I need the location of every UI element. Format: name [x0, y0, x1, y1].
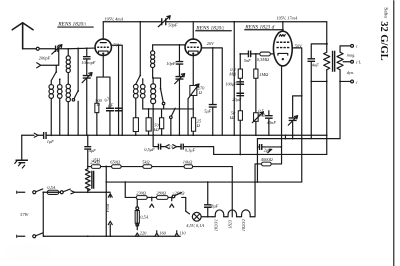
- wire antenna to grid: [23, 47, 96, 50]
- node detector row: [143, 108, 194, 110]
- switch S4: [160, 88, 165, 109]
- svg-text:c: c: [356, 79, 358, 84]
- capacitor 200pF trimmer: [39, 45, 62, 61]
- switch S2: [72, 48, 79, 135]
- wire B+ drop to IF: [139, 21, 141, 75]
- terminal TA (pickup): [165, 144, 176, 149]
- wire B+ screen feed: [233, 21, 235, 135]
- inductor heater winding 1820/2: [237, 210, 251, 231]
- node distribution line: [214, 154, 327, 156]
- inductor L6 (IF coil b): [140, 79, 145, 109]
- wire anode tap (tube2 right): [201, 47, 222, 135]
- svg-text:220: 220: [140, 230, 147, 235]
- svg-text:5μF: 5μF: [204, 108, 211, 113]
- svg-text:c: c: [356, 44, 358, 49]
- svg-text:5kΩ: 5kΩ: [142, 159, 150, 164]
- junction: [87, 191, 89, 193]
- tube U1 RENS1820/1: [95, 22, 111, 77]
- capacitor C-var tuning 1: [82, 73, 92, 136]
- switch S7: [63, 189, 110, 194]
- tube U3 RENS1823d (output): [273, 21, 292, 66]
- connector tap 220: [135, 224, 147, 236]
- switch S3 (IF select): [136, 75, 141, 85]
- fuse 0.5A (heater): [135, 199, 149, 226]
- switch S5: [170, 108, 176, 136]
- svg-text:25H: 25H: [92, 157, 100, 162]
- svg-text:Ω: Ω: [197, 123, 201, 128]
- inductor L4 (grid coil, lower): [66, 84, 70, 135]
- svg-text:10kΩ: 10kΩ: [183, 159, 193, 164]
- mains input lower stub: [17, 235, 25, 237]
- node speaker return: [257, 134, 340, 183]
- capacitor 5uF (screen tube2): [204, 48, 217, 135]
- switch S1 (waveband): [52, 65, 57, 80]
- svg-text:RENS 1820/1: RENS 1820/1: [57, 21, 86, 27]
- resistor 280R (dropper): [147, 190, 168, 199]
- svg-text:8μF: 8μF: [211, 203, 218, 208]
- node anode supply: [326, 22, 328, 52]
- capacitor 100uF: [225, 81, 244, 86]
- capacitor trimmer (tone): [288, 116, 297, 126]
- svg-text:195V, 17mA: 195V, 17mA: [276, 15, 297, 21]
- svg-text:280Ω: 280Ω: [156, 190, 167, 195]
- resistor 4000R (cathode): [255, 146, 282, 166]
- svg-text:mag.: mag.: [347, 52, 356, 57]
- svg-text:dyn.: dyn.: [347, 70, 354, 75]
- resistor 0.3M: [228, 67, 242, 79]
- svg-text:1MΩ: 1MΩ: [259, 72, 269, 77]
- svg-text:10pF: 10pF: [166, 61, 176, 66]
- terminal: [59, 191, 64, 194]
- switch S9 (260R select): [172, 190, 186, 211]
- ground: [15, 135, 28, 168]
- inductor heater winding 1823: [224, 210, 237, 229]
- winding former box b: [146, 109, 151, 135]
- connector tap 110: [175, 230, 186, 236]
- svg-text:20V: 20V: [207, 41, 215, 46]
- connector tap b: [168, 197, 174, 208]
- svg-text:0,1μF: 0,1μF: [185, 147, 196, 153]
- node cathode bar: [97, 76, 110, 78]
- scan smudge: [2, 242, 54, 262]
- svg-text:Ω: Ω: [199, 90, 203, 95]
- svg-text:4000Ω: 4000Ω: [261, 157, 274, 162]
- capacitor 1uF (bus to ground): [22, 132, 54, 144]
- node main B bus: [47, 134, 327, 136]
- svg-text:c L: c L: [356, 60, 362, 65]
- capacitor 4uF (smoothing): [84, 134, 96, 152]
- terminal c (top): [351, 44, 358, 49]
- wire divider to heater: [231, 167, 233, 217]
- svg-text:4,5V, 0,1A: 4,5V, 0,1A: [186, 223, 204, 229]
- svg-text:1μF: 1μF: [47, 139, 54, 144]
- connector tap 160: [155, 230, 167, 236]
- terminal mains a: [33, 191, 36, 194]
- resistor 0.5M variable (volume): [252, 108, 266, 123]
- svg-text:MΩ: MΩ: [228, 71, 237, 76]
- fuse 0.5A: [47, 185, 59, 195]
- svg-text:110: 110: [179, 230, 186, 235]
- svg-text:1820/2: 1820/2: [241, 218, 246, 231]
- capacitor 0.1uF (cathode): [103, 77, 114, 135]
- capacitor 0.5uF (phono): [144, 144, 160, 153]
- inductor L8 (osc coil lower): [151, 68, 161, 136]
- svg-text:kΩ: kΩ: [154, 127, 160, 132]
- wire anode tap tube3: [292, 48, 302, 182]
- wire heater line: [201, 216, 212, 218]
- svg-text:0,5A: 0,5A: [140, 214, 148, 220]
- node phono row: [153, 135, 214, 154]
- antenna A: [12, 23, 33, 49]
- tube label RENS 1820/1: [57, 21, 93, 27]
- resistor 500R: [95, 77, 103, 135]
- wire tap: [343, 60, 362, 65]
- svg-text:Saba: Saba: [382, 7, 388, 18]
- svg-text:200pF: 200pF: [39, 55, 51, 60]
- inductor L3 (grid coil, upper): [66, 49, 70, 84]
- wire screen line: [118, 44, 120, 135]
- capacitor 0.1uF (phono): [181, 144, 195, 154]
- svg-text:~260Ω: ~260Ω: [172, 190, 185, 195]
- lamp 4.5V 0.1A: [186, 211, 205, 229]
- node return line (field): [105, 181, 301, 183]
- switch S6 (mains): [36, 189, 48, 193]
- resistor 50R: [154, 109, 164, 135]
- svg-text:0,5μF: 0,5μF: [144, 147, 155, 153]
- resistor 1M: [254, 53, 269, 135]
- terminal (earth/antenna 2 input arrow): [37, 49, 59, 68]
- connector Feld (field coil): [105, 194, 113, 237]
- tube U2 RENS1820/2: [185, 22, 201, 136]
- svg-text:40nF: 40nF: [267, 120, 277, 125]
- svg-text:4nF: 4nF: [312, 62, 319, 67]
- svg-text:32 G/GL: 32 G/GL: [378, 21, 389, 60]
- connector tap a: [150, 197, 154, 207]
- tube label RENS 1823d: [244, 24, 283, 30]
- capacitor 2uF (cathode bypass): [257, 144, 281, 153]
- wire divider drop: [105, 166, 107, 238]
- svg-text:20μF: 20μF: [232, 97, 242, 102]
- terminal c (bottom): [340, 79, 358, 84]
- svg-text:0,3MΩ: 0,3MΩ: [257, 57, 270, 63]
- node mains bus: [44, 235, 181, 237]
- resistor 650R: [110, 159, 121, 168]
- capacitor 4nF (plate): [307, 44, 326, 139]
- capacitor 10nF (grid): [81, 48, 96, 75]
- inductor heater winding 1820/1: [212, 210, 224, 231]
- capacitor 8uF: [204, 182, 219, 218]
- svg-text:μF: μF: [108, 102, 113, 107]
- wire cathode tube3: [281, 66, 283, 164]
- resistor 270R variable: [188, 84, 205, 135]
- switch S8: [36, 233, 45, 237]
- svg-text:TA: TA: [168, 144, 173, 149]
- resistor 5kR: [142, 159, 152, 168]
- resistor 25R: [191, 118, 201, 132]
- svg-text:1823: 1823: [227, 219, 232, 229]
- capacitor 20uF: [232, 93, 244, 102]
- inductor L7 (osc coil upper): [151, 45, 155, 68]
- svg-text:50pF: 50pF: [168, 22, 178, 27]
- resistor 10kR: [183, 159, 193, 168]
- wire heater return: [250, 164, 255, 217]
- terminal mains b: [33, 235, 36, 238]
- capacitor 10pF: [166, 61, 183, 66]
- svg-text:4μF: 4μF: [89, 148, 96, 153]
- border right: [393, 0, 395, 266]
- capacitor 50pF variable (in rail): [158, 16, 178, 28]
- svg-text:230Ω: 230Ω: [136, 190, 147, 195]
- wire screen tap: [293, 96, 302, 139]
- resistor 0.3M grid: [257, 52, 271, 63]
- junction dots input: [67, 47, 87, 49]
- resistor divider row 25k: [87, 159, 232, 168]
- svg-text:1820/1: 1820/1: [213, 219, 218, 231]
- node B+ rail 195V: [103, 21, 161, 23]
- tube label RENS 1820/2: [195, 25, 231, 31]
- inductor L5 (IF coil a): [133, 84, 138, 117]
- capacitor 40nF: [265, 111, 276, 136]
- wire anode tap (tube1 right): [111, 45, 122, 135]
- wire: [239, 53, 241, 155]
- resistor 230R (dropper): [124, 181, 147, 199]
- svg-text:Ω: Ω: [97, 102, 101, 107]
- svg-text:5nF: 5nF: [244, 58, 251, 63]
- svg-text:100μF: 100μF: [225, 81, 237, 86]
- mains input upper stub: [17, 191, 25, 193]
- svg-text:kΩ: kΩ: [230, 115, 236, 120]
- capacitor 5nF (coupling): [244, 51, 251, 63]
- resistor 50k: [230, 110, 243, 120]
- node grid row tube3: [240, 53, 273, 55]
- terminal (antenna socket): [36, 47, 39, 50]
- winding former box a: [133, 118, 138, 136]
- transformer T1 core: [333, 51, 335, 72]
- inductor L1 (antenna coil a): [49, 80, 54, 135]
- transformer T1 primary: [324, 52, 330, 154]
- wire mains link: [42, 192, 44, 236]
- svg-text:Feld: Feld: [105, 203, 110, 213]
- title Saba 32 G/GL: [378, 7, 389, 60]
- svg-text:57W: 57W: [20, 212, 28, 217]
- capacitor (screen bypass): [115, 108, 123, 111]
- svg-text:650Ω: 650Ω: [110, 159, 121, 164]
- wire osc coupling: [153, 44, 186, 46]
- inductor L2 (antenna coil b): [57, 78, 62, 135]
- inductor 25H choke: [85, 149, 100, 192]
- transformer T1 secondary: [337, 46, 351, 139]
- svg-text:MΩ: MΩ: [257, 112, 266, 117]
- capacitor C-var tuning 2 (osc): [175, 45, 185, 135]
- svg-text:10000pF: 10000pF: [81, 60, 96, 65]
- wire: [167, 21, 327, 23]
- junction dots on bus: [50, 134, 286, 136]
- svg-text:160: 160: [159, 230, 166, 235]
